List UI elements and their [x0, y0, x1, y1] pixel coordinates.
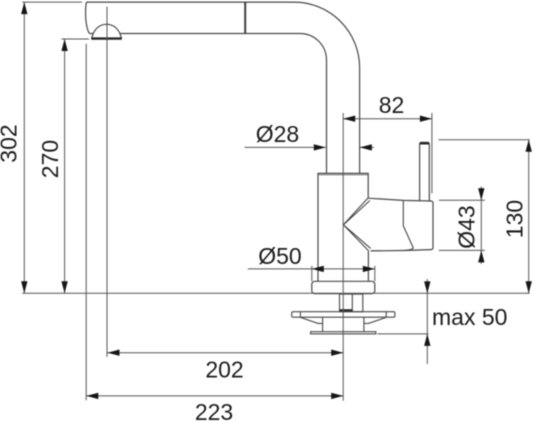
- svg-text:270: 270: [37, 140, 63, 178]
- svg-text:223: 223: [195, 399, 233, 421]
- dim O28 line: [245, 146, 326, 148]
- arrowhead O43 bottom: [478, 250, 484, 262]
- svg-text:max 50: max 50: [432, 304, 507, 330]
- base flange: [312, 281, 375, 293]
- svg-text:302: 302: [0, 124, 22, 162]
- aerator dome: [93, 24, 120, 33]
- dim O43 bottom extension line: [439, 249, 485, 251]
- mounting washer top plate: [292, 312, 395, 318]
- dim 130 top extension line: [439, 139, 530, 141]
- arrowhead O28 left: [314, 144, 326, 150]
- svg-text:Ø43: Ø43: [454, 205, 480, 248]
- aerator outlet bottom (thick): [91, 37, 122, 39]
- dim 270 extension line: [62, 38, 90, 40]
- dim O50 line with leader: [248, 268, 375, 270]
- spout tube outline (top edge, elbow outer curve, right edge of downtube): [86, 2, 359, 173]
- aerator centerline projection: [106, 7, 108, 357]
- dim max50 line: [426, 279, 428, 364]
- svg-text:130: 130: [502, 200, 528, 238]
- washer plate left cap divider: [299, 312, 301, 318]
- arrowhead 130 bottom: [526, 281, 532, 293]
- spout tube left end cap: [86, 2, 90, 33]
- body top edge accent: [318, 174, 368, 176]
- svg-text:82: 82: [379, 92, 405, 118]
- dim O50 left extension stub: [311, 266, 313, 282]
- arrowhead 130 top: [526, 140, 532, 152]
- arrowhead 270 top: [61, 39, 67, 51]
- arrowhead 202 right: [331, 350, 343, 356]
- cartridge bottom arc: [404, 248, 413, 250]
- spout tube bottom edge left of aerator: [89, 33, 93, 35]
- threaded shank: [340, 294, 363, 312]
- dim 302 line: [23, 2, 25, 293]
- countertop reference line: [22, 292, 529, 294]
- dim 270 line: [64, 39, 66, 293]
- mixer joint upper wedge: [343, 198, 370, 225]
- arrowhead 82 left: [343, 116, 355, 122]
- svg-text:Ø28: Ø28: [256, 121, 299, 147]
- arrowhead O43 top: [478, 188, 484, 200]
- arrowhead 202 left: [108, 350, 120, 356]
- spout tube bottom edge, elbow inner curve, left edge of downtube: [120, 34, 327, 174]
- svg-text:Ø50: Ø50: [258, 243, 301, 269]
- spout tube joint line: [244, 2, 246, 33]
- body centerline projection: [342, 113, 344, 401]
- washer bottom plate: [311, 332, 376, 334]
- supply hose bottom (thick): [340, 309, 352, 311]
- dim O28 right tail: [360, 146, 374, 148]
- dim 82 right extension line: [431, 113, 433, 193]
- lever handle top cap (thick): [420, 142, 429, 144]
- dim O43 top extension line: [439, 199, 485, 201]
- dim 223 line: [86, 395, 343, 397]
- arrowhead 223 right: [331, 393, 343, 399]
- washer left gusset: [300, 317, 322, 332]
- arrowhead O28 right: [360, 144, 372, 150]
- mixer joint lower wedge: [343, 225, 370, 251]
- lever handle bar: [420, 142, 430, 200]
- dim O43 line: [480, 187, 482, 265]
- arrowhead max50 bottom: [424, 334, 430, 346]
- washer right gusset: [364, 317, 386, 332]
- arrowhead 270 bottom: [61, 281, 67, 293]
- arrowhead O50 left: [312, 266, 324, 272]
- arrowhead 302 bottom: [21, 281, 27, 293]
- cartridge chamfer diagonal: [403, 226, 413, 248]
- dim 302 top extension line: [22, 1, 82, 3]
- shank inner line: [351, 294, 353, 312]
- dim max50 bottom reference line: [378, 333, 429, 335]
- faucet body: [318, 173, 368, 281]
- arrowhead 223 left: [86, 393, 98, 399]
- arrowhead max50 top: [424, 281, 430, 293]
- arrowhead O50 right: [363, 266, 375, 272]
- dim O50 right extension stub: [374, 266, 376, 282]
- dim 82 line: [343, 118, 432, 120]
- svg-text:202: 202: [205, 357, 243, 383]
- cartridge joint vertical line: [402, 201, 404, 226]
- spout left edge projection line: [85, 44, 87, 401]
- dim 202 line: [108, 352, 344, 354]
- handle housing top edge: [368, 198, 431, 201]
- handle housing right side (cartridge): [371, 201, 433, 251]
- dim 130 line: [528, 140, 530, 294]
- aerator skirt sides: [92, 34, 122, 39]
- washer plate right cap divider: [385, 312, 387, 318]
- arrowhead 82 right: [420, 116, 432, 122]
- arrowhead 302 top: [21, 2, 27, 14]
